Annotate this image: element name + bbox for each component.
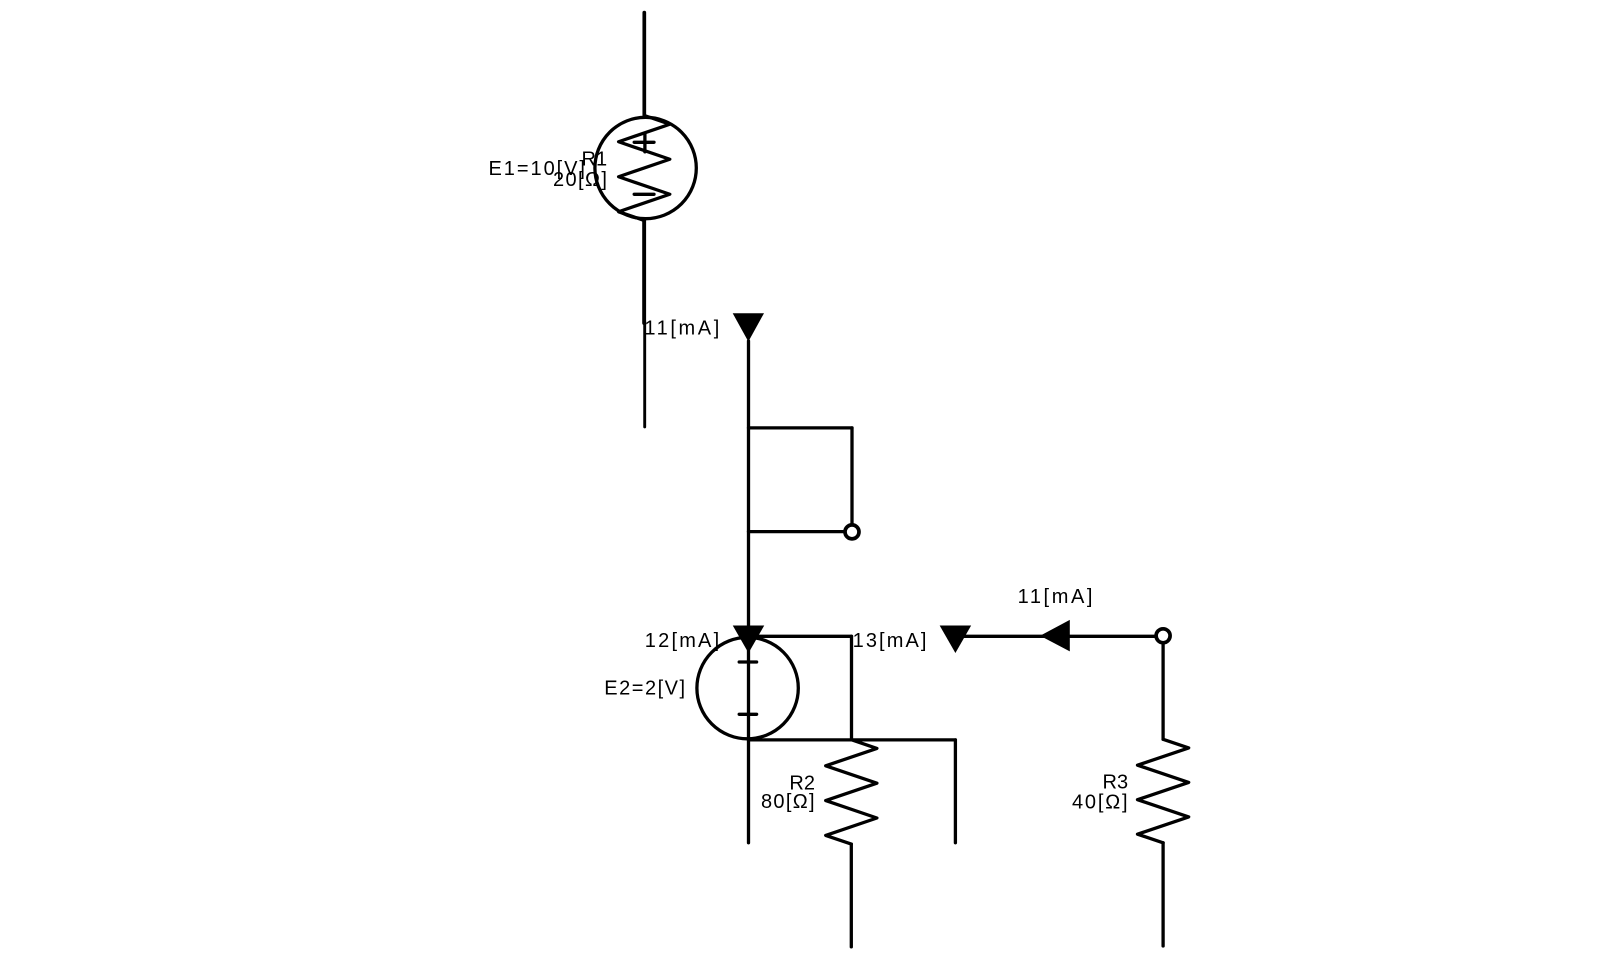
terminal open circle T1 (845, 525, 859, 539)
resistor R1 zigzag inside E1 (619, 116, 670, 221)
wire branch right vertical (850, 428, 853, 525)
wire top lead of E1 (642, 13, 646, 116)
current arrow I1 left on top wire (1040, 620, 1070, 652)
wire bottom lead of E1 (642, 221, 646, 324)
wire R2 branch vertical (850, 636, 853, 739)
svg-text:20[Ω]: 20[Ω] (553, 169, 608, 191)
current arrow I1 down (733, 313, 764, 341)
voltage source E2 circle (697, 637, 798, 738)
svg-text:R1: R1 (582, 149, 608, 171)
svg-text:80[Ω]: 80[Ω] (761, 791, 816, 813)
svg-text:12[mA]: 12[mA] (645, 630, 722, 652)
wire R2 bottom tail (850, 844, 853, 947)
wire right stub vertical (954, 740, 957, 843)
terminal open circle T2 (1156, 629, 1170, 643)
wire R3 bottom tail (1161, 843, 1164, 946)
wire main branch through E2 (747, 341, 750, 843)
wire branch top horizontal (749, 426, 853, 429)
current arrow I3 down (940, 626, 972, 654)
svg-text:13[mA]: 13[mA] (853, 630, 929, 652)
resistor R2 zigzag (826, 740, 877, 844)
E1 plus sign (634, 133, 654, 152)
E2 plus plate (739, 660, 756, 663)
wire node bottom horizontal (749, 738, 956, 741)
svg-text:E2=2[V]: E2=2[V] (604, 678, 686, 700)
wire top right horizontal (955, 635, 1156, 638)
wire node top horizontal to R2 branch (749, 635, 852, 638)
E2 minus plate (739, 713, 756, 716)
voltage source E1 circle (595, 117, 696, 218)
svg-text:11[mA]: 11[mA] (644, 318, 721, 340)
svg-text:40[Ω]: 40[Ω] (1072, 791, 1129, 813)
current arrow I2 down into E2 (733, 626, 765, 654)
wire R3 top lead (1161, 643, 1164, 739)
resistor R3 zigzag (1138, 739, 1189, 843)
svg-text:11[mA]: 11[mA] (1018, 586, 1095, 608)
wire branch lower horizontal (749, 530, 846, 533)
E1 minus sign (634, 193, 654, 196)
